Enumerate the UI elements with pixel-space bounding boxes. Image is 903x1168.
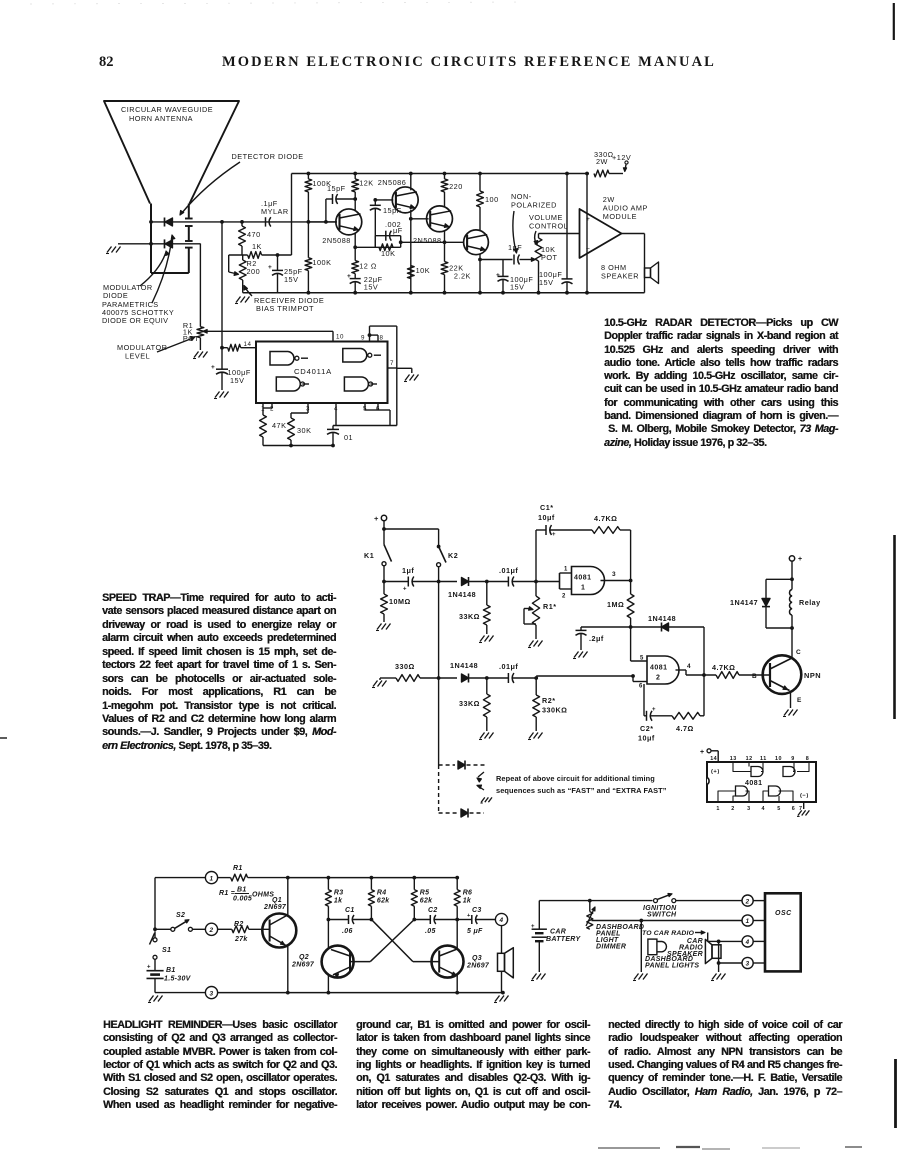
svg-text:4.7KΩ: 4.7KΩ <box>712 663 735 672</box>
svg-text:330Ω: 330Ω <box>395 662 415 671</box>
svg-text:Relay: Relay <box>799 598 821 607</box>
svg-text:3: 3 <box>746 961 750 968</box>
svg-text:Repeat of above circuit for ad: Repeat of above circuit for additional t… <box>496 774 655 783</box>
svg-text:6: 6 <box>639 684 643 690</box>
svg-text:0.005: 0.005 <box>233 896 252 903</box>
svg-text:C1: C1 <box>345 907 355 914</box>
svg-text:OHMS: OHMS <box>252 892 274 899</box>
svg-text:220: 220 <box>449 182 463 191</box>
svg-text:200: 200 <box>247 267 261 276</box>
svg-text:13: 13 <box>730 756 737 762</box>
svg-text:MODULE: MODULE <box>603 212 637 221</box>
svg-text:C2: C2 <box>428 907 438 914</box>
svg-text:Q3: Q3 <box>472 955 482 962</box>
svg-text:R1*: R1* <box>543 602 557 611</box>
svg-text:+: + <box>374 514 379 523</box>
svg-text:27k: 27k <box>234 936 248 943</box>
svg-text:.05: .05 <box>425 928 436 935</box>
svg-text:SPEAKER: SPEAKER <box>601 272 639 281</box>
svg-text:4081: 4081 <box>574 575 592 582</box>
svg-text:2W: 2W <box>596 157 608 166</box>
svg-text:sequences such as “FAST” and “: sequences such as “FAST” and “EXTRA FAST… <box>496 786 667 795</box>
svg-text:CD4011A: CD4011A <box>294 367 332 376</box>
svg-text:SWITCH: SWITCH <box>647 912 677 919</box>
svg-text:.01μf: .01μf <box>499 566 518 575</box>
svg-text:2N5086: 2N5086 <box>378 178 407 187</box>
svg-text:+: + <box>403 587 407 593</box>
svg-text:10: 10 <box>336 334 344 341</box>
svg-text:2.2K: 2.2K <box>454 272 471 281</box>
svg-text:DIODE: DIODE <box>103 291 128 300</box>
svg-text:4081: 4081 <box>650 665 668 672</box>
svg-text:POT: POT <box>541 253 558 262</box>
svg-text:MYLAR: MYLAR <box>261 207 289 216</box>
svg-text:2: 2 <box>745 898 750 905</box>
svg-text:S2: S2 <box>176 912 185 919</box>
svg-text:30K: 30K <box>297 426 311 435</box>
svg-text:9: 9 <box>791 756 795 762</box>
svg-text:4: 4 <box>745 939 750 946</box>
svg-text:5: 5 <box>640 656 644 662</box>
svg-text:R2*: R2* <box>542 696 556 705</box>
svg-text:8: 8 <box>806 756 810 762</box>
svg-text:.01μf: .01μf <box>499 662 518 671</box>
svg-text:B1: B1 <box>237 887 247 894</box>
svg-text:3: 3 <box>747 806 751 812</box>
svg-text:C2*: C2* <box>640 724 654 733</box>
svg-text:+: + <box>700 749 705 756</box>
svg-text:C1*: C1* <box>540 503 554 512</box>
svg-text:(+): (+) <box>711 769 720 775</box>
svg-text:47K: 47K <box>272 421 286 430</box>
svg-text:2N697: 2N697 <box>466 963 490 970</box>
svg-text:C: C <box>796 649 801 656</box>
svg-text:2N697: 2N697 <box>291 962 315 969</box>
svg-text:8: 8 <box>380 335 384 342</box>
svg-text:10: 10 <box>775 756 782 762</box>
svg-text:1N4148: 1N4148 <box>448 590 476 599</box>
svg-text:62k: 62k <box>420 898 433 905</box>
svg-text:15V: 15V <box>510 283 524 292</box>
svg-text:TO CAR RADIO: TO CAR RADIO <box>642 930 695 937</box>
svg-text:10K: 10K <box>416 266 430 275</box>
svg-text:R6: R6 <box>463 890 473 897</box>
svg-text:33KΩ: 33KΩ <box>459 699 480 708</box>
svg-text:R4: R4 <box>377 890 387 897</box>
svg-text:62k: 62k <box>377 898 390 905</box>
svg-text:15pF: 15pF <box>327 184 346 193</box>
svg-text:+: + <box>268 264 272 271</box>
svg-text:10μf: 10μf <box>638 734 655 743</box>
svg-text:1K: 1K <box>252 242 262 251</box>
svg-text:7: 7 <box>390 360 394 367</box>
svg-text:R2: R2 <box>234 921 244 928</box>
svg-text:HORN ANTENNA: HORN ANTENNA <box>129 114 193 123</box>
svg-text:DIODE OR EQUIV: DIODE OR EQUIV <box>102 316 168 325</box>
svg-text:CIRCULAR WAVEGUIDE: CIRCULAR WAVEGUIDE <box>121 105 213 114</box>
svg-text:2: 2 <box>731 806 735 812</box>
svg-text:+: + <box>798 556 803 563</box>
svg-text:1: 1 <box>746 918 750 925</box>
svg-text:+: + <box>211 364 215 371</box>
svg-text:15V: 15V <box>364 283 378 292</box>
svg-text:2N5088: 2N5088 <box>322 236 351 245</box>
svg-text:2: 2 <box>656 675 660 682</box>
svg-text:+: + <box>496 272 500 279</box>
svg-text:4.7Ω: 4.7Ω <box>676 724 694 733</box>
svg-text:1N4147: 1N4147 <box>730 598 758 607</box>
svg-text:+: + <box>147 965 151 971</box>
svg-text:.06: .06 <box>342 928 353 935</box>
svg-text:+: + <box>652 707 656 713</box>
svg-text:6: 6 <box>792 806 796 812</box>
svg-text:BATTERY: BATTERY <box>546 936 582 943</box>
svg-text:+: + <box>467 913 471 919</box>
svg-text:12K: 12K <box>359 179 373 188</box>
svg-text:15V: 15V <box>284 275 298 284</box>
svg-text:R1: R1 <box>233 865 243 872</box>
svg-text:15pF: 15pF <box>383 206 402 215</box>
svg-text:3: 3 <box>209 990 213 997</box>
svg-text:CONTROL: CONTROL <box>529 222 568 231</box>
svg-text:SPEAKER: SPEAKER <box>667 951 703 958</box>
svg-text:+12V: +12V <box>612 153 631 162</box>
svg-text:15V: 15V <box>230 376 244 385</box>
svg-text:R5: R5 <box>420 890 430 897</box>
svg-text:B: B <box>752 673 757 680</box>
svg-text:4: 4 <box>762 806 766 812</box>
svg-text:DIMMER: DIMMER <box>596 944 626 951</box>
svg-text:2: 2 <box>208 927 213 934</box>
svg-text:1N4148: 1N4148 <box>648 614 676 623</box>
svg-text:K2: K2 <box>448 551 458 560</box>
svg-text:9: 9 <box>361 335 365 342</box>
svg-text:14: 14 <box>244 341 252 348</box>
svg-text:2N697: 2N697 <box>263 904 287 911</box>
svg-text:μF: μF <box>393 226 403 235</box>
svg-text:B1: B1 <box>166 967 176 974</box>
svg-text:−: − <box>586 246 590 253</box>
svg-text:3: 3 <box>612 571 616 578</box>
svg-text:12 Ω: 12 Ω <box>359 262 377 271</box>
svg-text:10MΩ: 10MΩ <box>389 597 411 606</box>
svg-text:Q2: Q2 <box>299 954 309 961</box>
svg-text:+: + <box>347 273 351 280</box>
svg-text:10K: 10K <box>381 249 395 258</box>
svg-text:10μf: 10μf <box>538 513 555 522</box>
svg-text:12: 12 <box>746 756 753 762</box>
svg-text:NPN: NPN <box>804 671 821 680</box>
svg-text:11: 11 <box>760 756 767 762</box>
svg-text:15V: 15V <box>539 278 553 287</box>
svg-text:1.5-30V: 1.5-30V <box>164 976 192 983</box>
svg-text:.2μf: .2μf <box>589 634 604 643</box>
svg-text:+: + <box>531 924 535 930</box>
svg-text:1k: 1k <box>334 898 343 905</box>
svg-text:4: 4 <box>498 917 503 924</box>
svg-text:100: 100 <box>485 195 499 204</box>
svg-text:Q1: Q1 <box>272 897 282 904</box>
svg-text:OSC: OSC <box>775 910 792 917</box>
svg-text:14: 14 <box>710 756 717 762</box>
svg-text:330KΩ: 330KΩ <box>542 706 567 715</box>
svg-text:POLARIZED: POLARIZED <box>511 201 557 210</box>
svg-text:1μf: 1μf <box>402 566 414 575</box>
svg-text:PANEL LIGHTS: PANEL LIGHTS <box>645 963 699 970</box>
svg-text:E: E <box>797 697 802 704</box>
svg-text:C3: C3 <box>472 907 482 914</box>
svg-text:K1: K1 <box>364 551 374 560</box>
svg-text:2: 2 <box>562 594 566 600</box>
svg-text:2N5088: 2N5088 <box>413 236 442 245</box>
svg-text:1k: 1k <box>463 898 472 905</box>
svg-text:4081: 4081 <box>745 780 763 787</box>
svg-text:470: 470 <box>247 230 261 239</box>
svg-text:4: 4 <box>687 663 691 670</box>
svg-text:DETECTOR DIODE: DETECTOR DIODE <box>232 152 304 161</box>
svg-text:5: 5 <box>777 806 781 812</box>
svg-text:1: 1 <box>564 567 568 573</box>
svg-text:01: 01 <box>344 433 353 442</box>
svg-text:1: 1 <box>209 875 213 882</box>
svg-text:4.7KΩ: 4.7KΩ <box>594 514 617 523</box>
svg-text:R3: R3 <box>334 890 344 897</box>
svg-text:CAR: CAR <box>550 929 566 936</box>
svg-text:LEVEL: LEVEL <box>125 352 150 361</box>
svg-text:BIAS TRIMPOT: BIAS TRIMPOT <box>256 304 314 313</box>
svg-text:S1: S1 <box>162 947 171 954</box>
svg-text:1MΩ: 1MΩ <box>607 600 624 609</box>
svg-text:100K: 100K <box>312 258 331 267</box>
svg-text:33KΩ: 33KΩ <box>459 612 480 621</box>
svg-text:1: 1 <box>581 585 585 592</box>
svg-text:+: + <box>586 216 590 223</box>
svg-text:5 μF: 5 μF <box>467 928 483 935</box>
svg-text:1N4148: 1N4148 <box>450 661 478 670</box>
svg-text:1: 1 <box>716 806 720 812</box>
svg-text:+: + <box>552 532 556 538</box>
svg-text:(−): (−) <box>800 793 809 799</box>
